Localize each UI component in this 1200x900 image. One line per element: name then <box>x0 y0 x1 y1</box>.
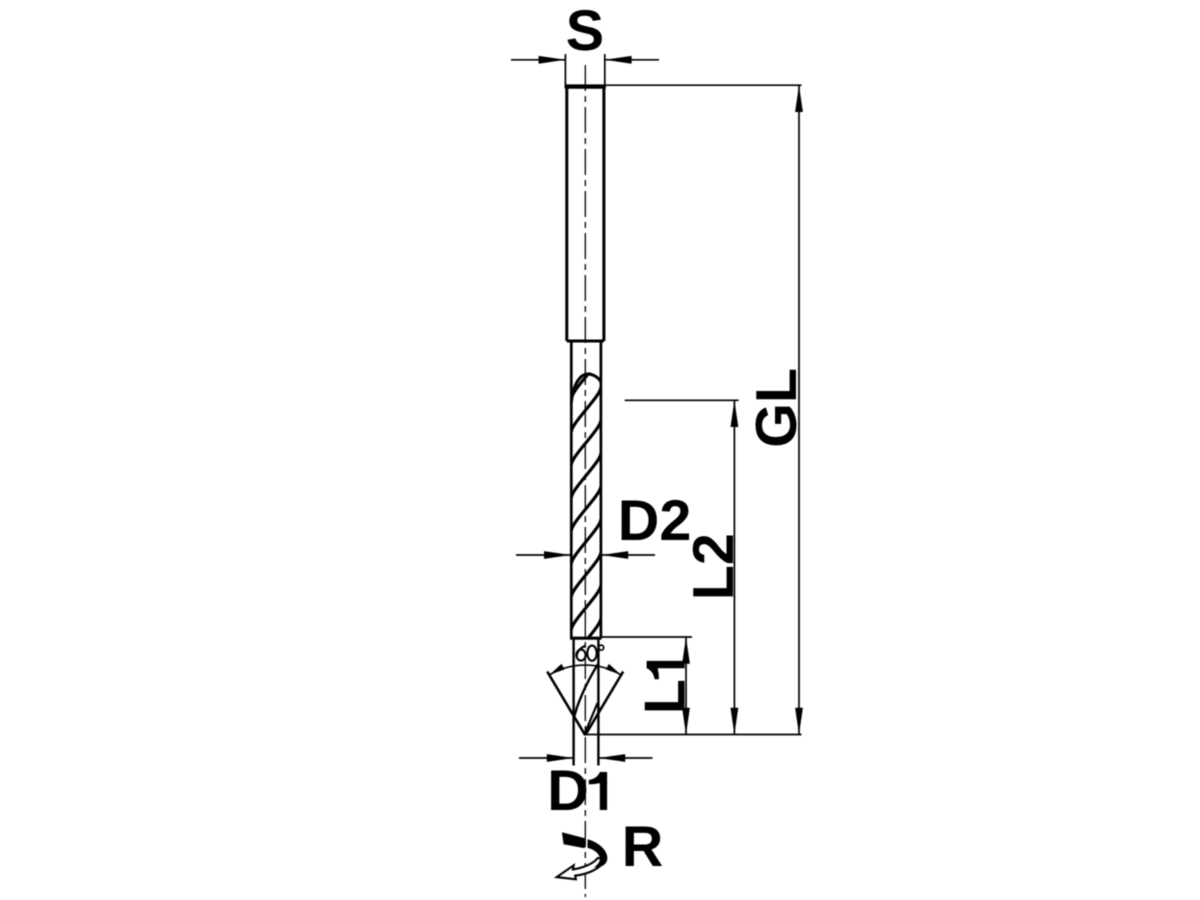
dimension S line right <box>605 59 659 61</box>
GL arrow top <box>795 85 803 112</box>
dimension S line left <box>511 59 565 61</box>
angle arc arrowhead right <box>606 664 621 675</box>
L1 arrow bottom <box>682 708 690 735</box>
dimension S arrow left <box>539 56 566 64</box>
dimension D2 line left <box>516 554 571 556</box>
dimension D2 arrow left <box>544 551 571 559</box>
GL arrow bottom <box>795 708 803 735</box>
svg-text:S: S <box>566 0 604 63</box>
GL dimension line <box>798 85 800 734</box>
neck and flute side edges <box>571 341 601 638</box>
shank body outline <box>567 87 604 342</box>
L2 arrow bottom <box>731 708 739 735</box>
dimension D1 line left <box>519 757 574 759</box>
L2 arrow top <box>731 400 739 427</box>
flute top dome <box>571 374 601 403</box>
L1 arrow top <box>682 637 690 664</box>
bottom reference line at drill point <box>585 734 801 736</box>
flute bottom edge (bold) <box>570 637 602 640</box>
dimension D2 line right <box>601 554 655 556</box>
L2 top extension line <box>625 399 739 401</box>
point cone line right <box>585 672 623 736</box>
GL top extension line <box>605 84 802 86</box>
tip flute continuation lines <box>574 664 598 718</box>
label 60deg <box>576 645 603 661</box>
svg-text:D2: D2 <box>618 489 692 553</box>
dimension D1 arrow right <box>598 754 625 762</box>
S extension line left <box>564 54 566 88</box>
point angle arc <box>549 665 621 675</box>
angle arc arrowhead left <box>549 664 564 675</box>
dimension D1 line right <box>598 757 652 759</box>
rotation symbol black hook right <box>588 839 608 867</box>
rotation symbol white band with open arrowhead <box>557 858 605 879</box>
svg-text:GL: GL <box>745 368 809 448</box>
svg-text:D: D <box>547 759 589 823</box>
dimension D2 arrow right <box>601 551 628 559</box>
svg-text:L: L <box>634 679 698 714</box>
L1 dimension line <box>685 637 687 735</box>
point cone line left <box>547 672 585 736</box>
S extension line right <box>604 54 606 88</box>
centerline <box>584 65 586 897</box>
dimension S arrow right <box>605 56 632 64</box>
L2 dimension line <box>733 400 735 734</box>
flute helix hatch lines <box>571 354 601 663</box>
L1 top extension line <box>601 636 692 638</box>
svg-text:L2: L2 <box>682 533 746 600</box>
shank top edge (bold) <box>565 84 606 88</box>
dimension D1 arrow left <box>547 754 574 762</box>
rotation symbol black ribbon left <box>562 832 585 848</box>
tip cylinder edges / D1 extension lines <box>574 638 599 766</box>
svg-text:R: R <box>622 815 664 879</box>
